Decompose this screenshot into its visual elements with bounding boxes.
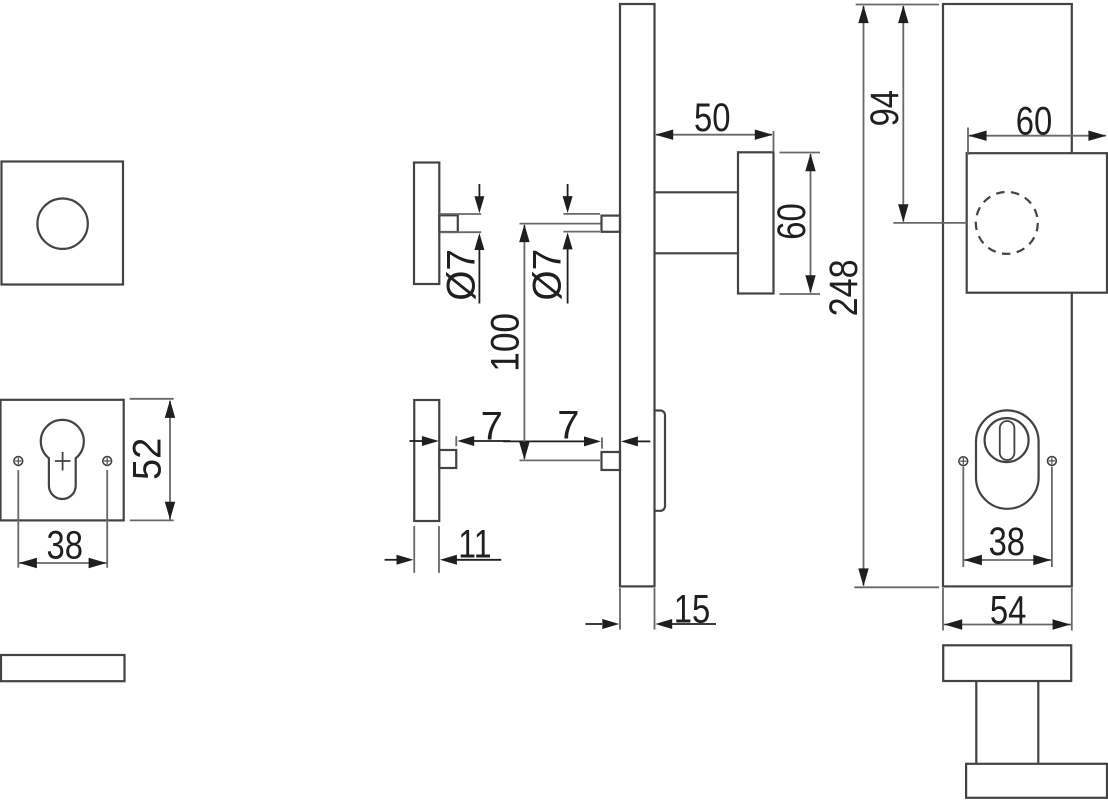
screw H right	[1048, 457, 1057, 466]
cylinder cover bump F	[655, 411, 665, 511]
knob neck H2 left line	[975, 681, 977, 764]
dimension 38 extension left	[17, 470, 19, 568]
dim 60 line	[810, 154, 812, 293]
svg-text:248: 248	[820, 259, 865, 316]
dim 60 extension top	[780, 152, 821, 154]
dim 15 extension right	[654, 588, 656, 630]
dim 11 line right	[440, 555, 457, 565]
dim 54 extension left	[942, 588, 944, 631]
fixing pin F bottom	[602, 452, 621, 470]
dimension 38 extension right	[106, 470, 108, 568]
rosette D - side view	[414, 163, 439, 285]
knob neck F top line	[655, 191, 738, 193]
svg-text:11: 11	[458, 521, 491, 566]
screw B right	[103, 457, 112, 466]
dim 60 extension bottom	[780, 293, 821, 295]
dim 100 line	[523, 225, 525, 459]
dim 38 H line	[963, 559, 1052, 561]
dim 15 line right	[655, 619, 672, 629]
svg-text:Ø7: Ø7	[525, 249, 570, 301]
dim 7 plate line left	[503, 440, 584, 442]
cylinder circle H	[985, 418, 1029, 462]
dim 7 rosette line right	[457, 436, 474, 446]
dim 11 line left	[385, 559, 398, 561]
dim 7 rosette tick	[455, 436, 457, 446]
dimension 38 line	[18, 562, 107, 564]
svg-text:60: 60	[769, 203, 814, 239]
dim 54 line	[944, 624, 1072, 626]
keyway slot H	[1000, 421, 1015, 460]
svg-text:100: 100	[483, 313, 528, 372]
svg-text:38: 38	[46, 523, 82, 568]
rosette E - side view	[414, 400, 439, 521]
fixing pin F top	[602, 216, 621, 232]
square cylinder rosette B - front view	[1, 400, 124, 521]
dim 11 extension right	[438, 526, 440, 573]
dim 94 line	[902, 6, 904, 222]
knob head H2 outline	[966, 764, 1107, 798]
dim 07 top extension	[439, 213, 481, 215]
dim 248 bottom extension	[854, 586, 939, 588]
svg-text:50: 50	[694, 95, 730, 140]
dimension 52 extension top	[130, 398, 174, 400]
top shared extension line	[856, 4, 939, 6]
dimension 52 extension bottom	[130, 519, 174, 521]
dim 07 upper arrow	[478, 184, 480, 197]
dim 100 extension bottom	[520, 459, 601, 461]
dim 50 line	[656, 134, 772, 136]
dim 15 extension left	[619, 588, 621, 630]
knob hole circle A	[37, 199, 87, 249]
dim 15 line left	[586, 623, 603, 625]
dim 54 extension right	[1071, 588, 1073, 631]
security plate F - side view outline	[620, 4, 655, 586]
oval cylinder escutcheon H	[976, 410, 1039, 508]
dim 07 plate bottom extension	[563, 231, 600, 233]
svg-text:7: 7	[481, 405, 503, 449]
dim 7 plate tick	[601, 437, 603, 448]
dim 11 extension left	[413, 526, 415, 573]
security plate H - front view outline	[943, 4, 1072, 586]
dim 07 lower arrow	[474, 233, 484, 250]
svg-text:15: 15	[674, 586, 710, 631]
knob circle dashed H	[976, 192, 1038, 254]
plate cross-section bar H2	[943, 645, 1071, 681]
svg-text:60: 60	[1016, 98, 1052, 143]
dim 38 H extension left	[962, 467, 964, 567]
fixing pin D	[439, 215, 458, 232]
svg-text:54: 54	[990, 588, 1026, 633]
svg-text:Ø7: Ø7	[439, 249, 484, 301]
knob axis extension line	[893, 222, 966, 224]
dim 38 H extension right	[1051, 467, 1053, 567]
dim 07 plate lower arrow	[563, 232, 573, 249]
dim 07 plate upper arrow	[567, 184, 569, 197]
dim 248 line	[863, 6, 865, 586]
dim 07 plate top extension	[563, 213, 600, 215]
knob disc F	[738, 152, 774, 293]
square knob rosette on plate H	[967, 153, 1107, 293]
knob neck H2 right line	[1037, 681, 1039, 764]
dim 50 extension	[773, 131, 775, 152]
svg-text:94: 94	[862, 90, 907, 126]
dim 07 bottom extension	[440, 231, 482, 233]
square knob rosette A - front view	[2, 162, 124, 285]
dimension 52 line	[169, 401, 171, 520]
svg-text:52: 52	[126, 438, 170, 480]
screw B left	[14, 457, 23, 466]
fixing pin E	[439, 450, 456, 468]
screw H left	[959, 457, 968, 466]
knob neck F bottom line	[655, 252, 738, 254]
svg-text:7: 7	[557, 404, 579, 448]
dim 100 extension top	[520, 223, 601, 225]
svg-text:38: 38	[989, 519, 1025, 564]
dim 60 H line	[969, 135, 1106, 137]
spacer bar C - front view	[1, 655, 125, 681]
dim 7 rosette line left	[410, 440, 424, 442]
dim 60 H extension	[967, 128, 969, 156]
dim 7 plate arrow right	[621, 436, 638, 446]
euro profile keyhole B	[41, 420, 84, 499]
center cross B	[55, 460, 71, 462]
